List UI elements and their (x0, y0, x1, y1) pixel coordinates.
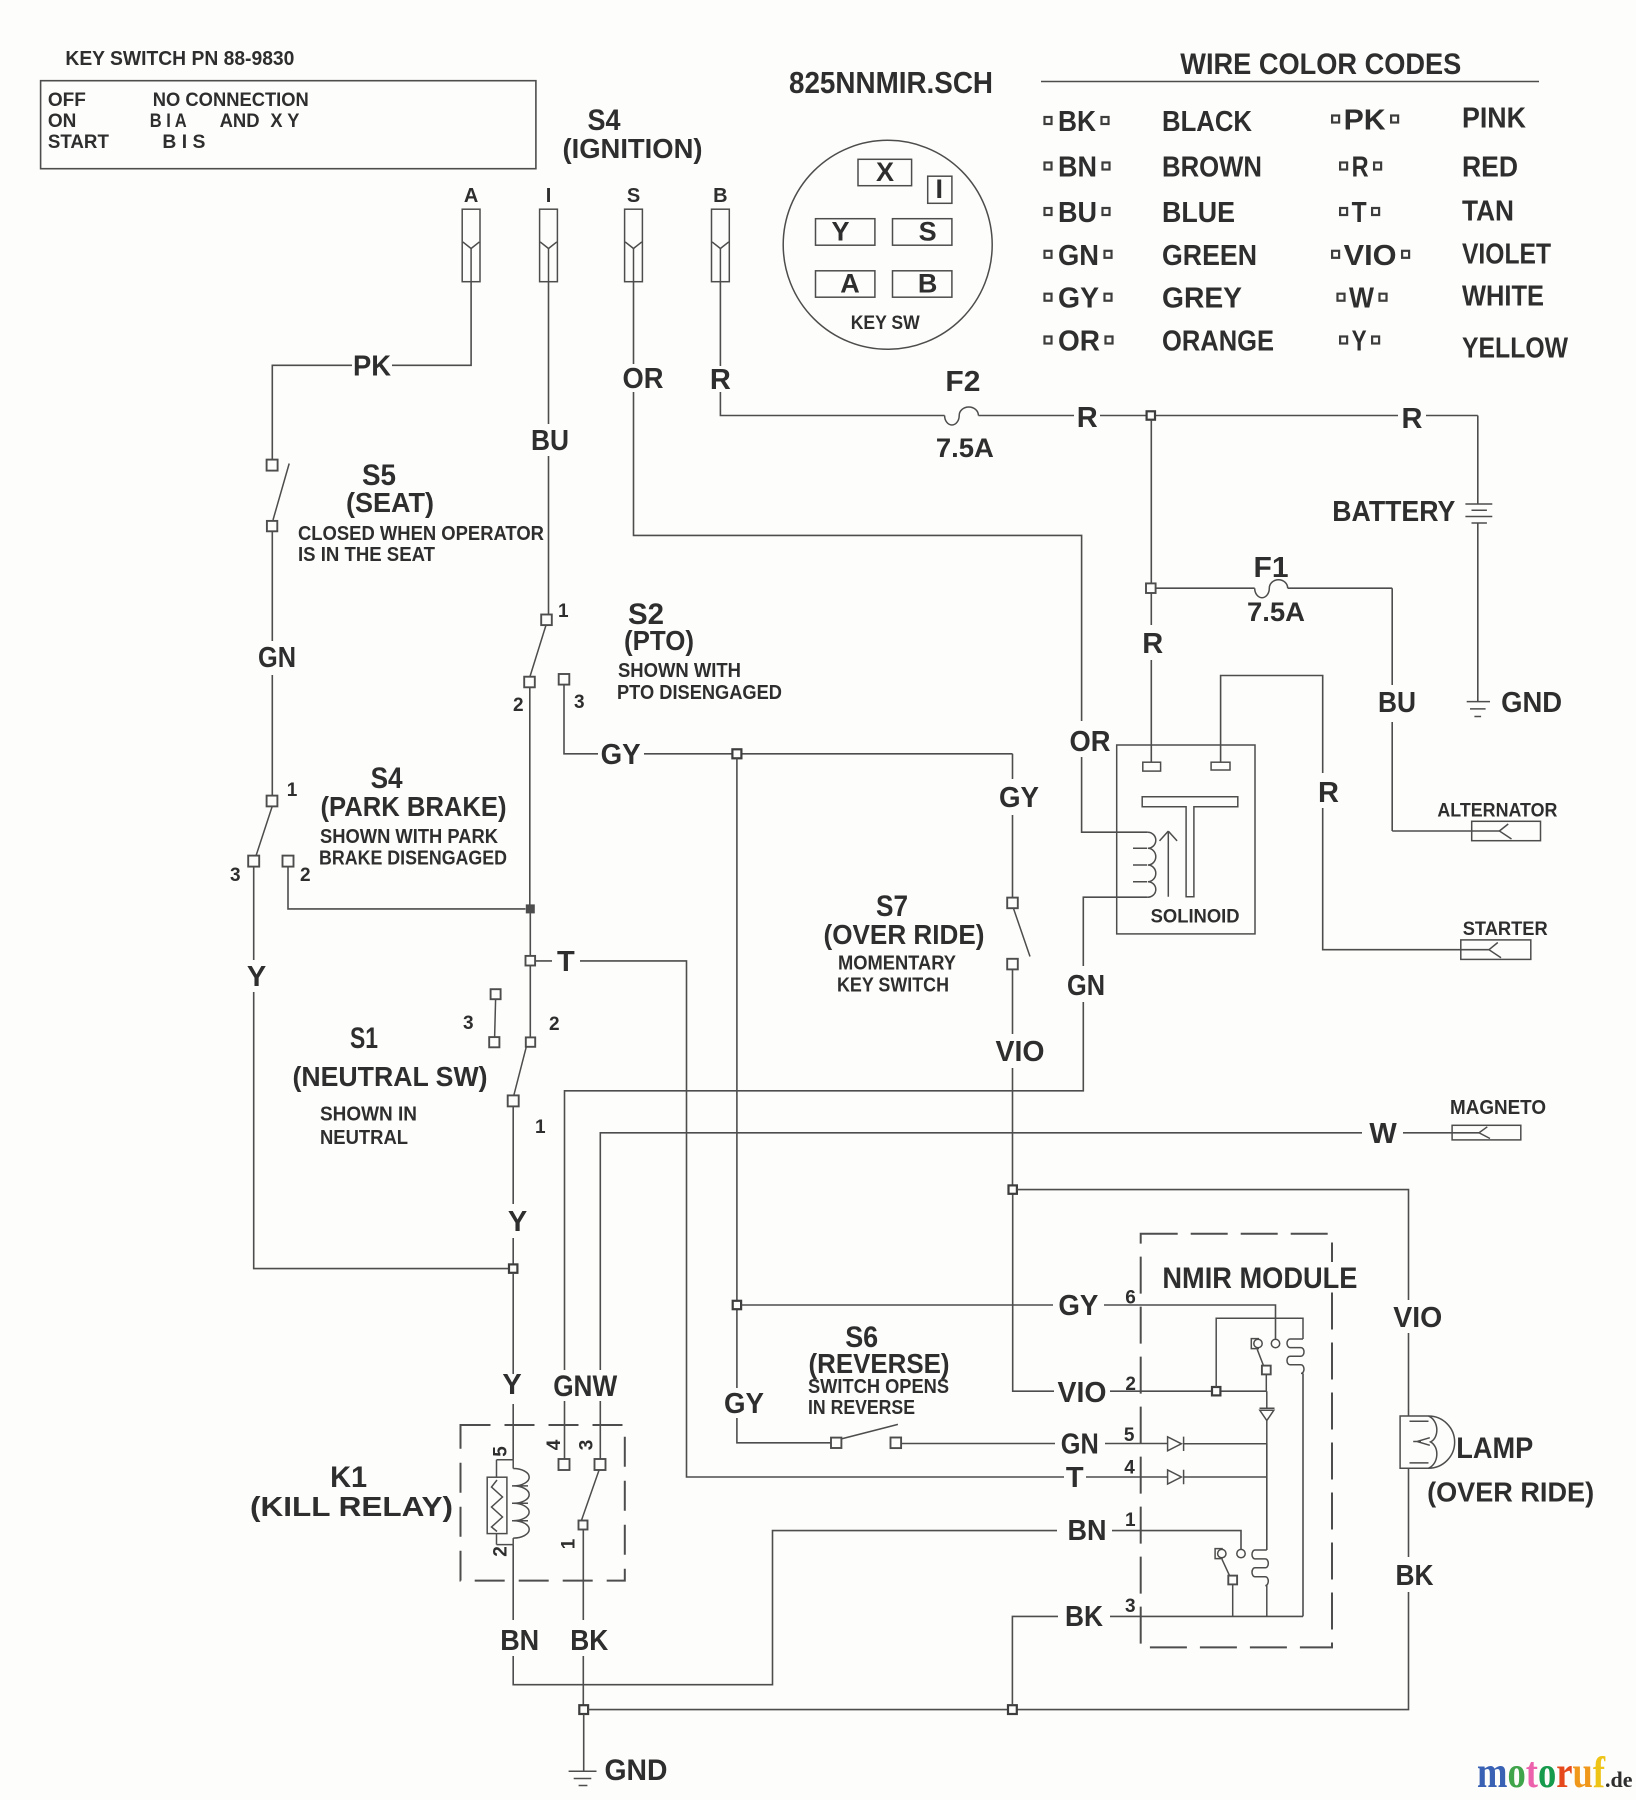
svg-text:MOMENTARY: MOMENTARY (838, 953, 957, 975)
svg-text:PK: PK (1344, 105, 1386, 137)
svg-text:BK: BK (1396, 1560, 1434, 1592)
svg-text:1: 1 (558, 601, 569, 622)
svg-text:SOLINOID: SOLINOID (1151, 907, 1240, 928)
svg-text:3: 3 (230, 865, 241, 886)
junction node BK at NMIR leg (1008, 1705, 1017, 1714)
NMIR relay 2 coil (1252, 1550, 1268, 1586)
fuse F2 7.5A (945, 407, 979, 425)
wire GN into NMIR pin 5 with diode D2 (901, 1443, 1168, 1445)
svg-text:BN: BN (500, 1625, 539, 1657)
svg-text:R: R (1142, 628, 1163, 660)
NMIR relay 1 coil bridge (1216, 1318, 1303, 1387)
terminal node of T branch (526, 956, 536, 966)
wire GY from junction down to reverse switch S6 (737, 758, 831, 1443)
fuse F1 7.5A and wire to alternator (1156, 588, 1393, 831)
svg-text:S: S (919, 217, 937, 247)
legend row BU/BLUE and T/TAN (1045, 208, 1052, 215)
solenoid right terminal pad (1211, 762, 1230, 770)
switch S6 (REVERSE) (831, 1438, 841, 1448)
svg-text:W: W (1369, 1118, 1397, 1150)
svg-text:ALTERNATOR: ALTERNATOR (1437, 801, 1557, 822)
svg-text:3: 3 (1125, 1596, 1136, 1617)
wire R from junction down to solenoid left terminal (1150, 420, 1152, 763)
svg-text:(PTO): (PTO) (624, 625, 694, 656)
svg-text:VIO: VIO (1393, 1302, 1442, 1334)
svg-text:Y: Y (508, 1206, 527, 1238)
svg-text:.de: .de (1605, 1767, 1633, 1792)
svg-text:I: I (936, 174, 944, 204)
legend row BN/BROWN and R/RED (1045, 163, 1052, 170)
svg-text:Y: Y (247, 961, 266, 993)
svg-text:GN: GN (1061, 1429, 1099, 1461)
svg-text:(OVER RIDE): (OVER RIDE) (1427, 1477, 1594, 1508)
svg-text:PINK: PINK (1462, 103, 1526, 135)
svg-text:STARTER: STARTER (1463, 919, 1548, 940)
svg-text:3: 3 (577, 1440, 598, 1451)
svg-text:SHOWN WITH PARK: SHOWN WITH PARK (320, 826, 499, 848)
svg-text:825NNMIR.SCH: 825NNMIR.SCH (789, 65, 993, 100)
svg-text:KEY SWITCH: KEY SWITCH (837, 975, 949, 997)
svg-text:X Y: X Y (270, 111, 299, 132)
terminal node at F1 tap (1146, 583, 1156, 593)
svg-text:(PARK BRAKE): (PARK BRAKE) (321, 791, 507, 822)
wire T from S2 pin 2 through junctions to S1 pin 2 (529, 687, 532, 1036)
svg-text:GREY: GREY (1162, 283, 1242, 315)
wire PK from key pin A to seat switch S5 (272, 282, 471, 460)
svg-text:BN: BN (1058, 152, 1097, 184)
svg-text:CLOSED WHEN OPERATOR: CLOSED WHEN OPERATOR (298, 523, 545, 545)
junction node VIO inside NMIR (1212, 1387, 1220, 1395)
svg-text:Y: Y (1352, 326, 1367, 358)
svg-text:VIOLET: VIOLET (1462, 239, 1551, 271)
svg-text:A: A (464, 185, 478, 207)
svg-text:BK: BK (570, 1625, 608, 1657)
relay K1 (KILL RELAY) dashed box (461, 1425, 625, 1581)
ground GND main (583, 1714, 585, 1771)
svg-text:X: X (876, 157, 894, 187)
svg-text:WIRE COLOR CODES: WIRE COLOR CODES (1180, 48, 1461, 81)
svg-text:GN: GN (1067, 970, 1105, 1002)
svg-text:BU: BU (1378, 687, 1416, 719)
svg-text:OR: OR (1058, 326, 1100, 358)
svg-text:R: R (1402, 403, 1423, 435)
svg-text:(SEAT): (SEAT) (346, 487, 434, 518)
svg-text:(IGNITION): (IGNITION) (563, 133, 703, 164)
svg-text:START: START (48, 132, 109, 153)
svg-text:K1: K1 (330, 1461, 367, 1494)
junction node BK/GND (579, 1705, 588, 1714)
svg-text:NEUTRAL: NEUTRAL (320, 1127, 408, 1149)
wire GN from solenoid coil to kill relay pin 4 (565, 897, 1148, 1459)
svg-text:T: T (557, 946, 575, 978)
svg-text:OR: OR (1070, 726, 1111, 758)
switch S2 (PTO) (541, 615, 552, 626)
svg-text:NMIR MODULE: NMIR MODULE (1162, 1262, 1357, 1295)
svg-text:KEY SWITCH PN 88-9830: KEY SWITCH PN 88-9830 (65, 48, 294, 70)
svg-text:S1: S1 (350, 1022, 378, 1055)
svg-text:SHOWN IN: SHOWN IN (320, 1104, 417, 1126)
wire OR from key pin S to solenoid coil (634, 282, 1148, 833)
svg-text:R: R (1318, 777, 1339, 809)
svg-text:BN: BN (1068, 1515, 1107, 1547)
svg-text:(REVERSE): (REVERSE) (809, 1348, 950, 1379)
svg-text:GY: GY (724, 1388, 764, 1420)
wire T branch to NMIR module pin 4 (535, 961, 1168, 1477)
svg-text:TAN: TAN (1462, 196, 1514, 228)
svg-text:GN: GN (258, 642, 296, 674)
solenoid coil (1133, 832, 1156, 897)
svg-text:R: R (710, 364, 731, 396)
svg-text:VIO: VIO (996, 1036, 1045, 1068)
svg-text:S: S (627, 185, 640, 207)
svg-text:PTO DISENGAGED: PTO DISENGAGED (617, 682, 782, 704)
wire main vertical inside NMIR to relay 2 coil (1266, 1444, 1268, 1551)
svg-text:2: 2 (1125, 1374, 1136, 1395)
svg-text:IS IN THE SEAT: IS IN THE SEAT (298, 544, 435, 566)
K1 coil (resistor box + arcs) (497, 1460, 514, 1545)
svg-text:PK: PK (353, 351, 391, 383)
svg-text:KEY SW: KEY SW (851, 313, 920, 334)
svg-text:A: A (840, 269, 860, 299)
svg-text:LAMP: LAMP (1456, 1432, 1533, 1465)
svg-text:BLACK: BLACK (1162, 106, 1252, 138)
wire BK from bus up into NMIR pin 3 (1012, 1616, 1303, 1705)
solenoid box (1117, 745, 1255, 934)
svg-text:GND: GND (1501, 687, 1562, 719)
junction node R at fuse F1 tap (1147, 411, 1155, 419)
junction node on T line (park brake) (526, 905, 534, 913)
K1 contact blade and pin 1 (582, 1470, 600, 1520)
junction node GY to NMIR pin 6 (733, 1301, 741, 1309)
svg-text:F1: F1 (1254, 552, 1289, 584)
svg-text:3: 3 (463, 1013, 474, 1034)
svg-text:AND: AND (220, 111, 260, 132)
svg-text:SWITCH OPENS: SWITCH OPENS (808, 1376, 949, 1398)
solenoid arrow (1160, 831, 1178, 897)
wire GN from S5 to park brake switch S4 (271, 531, 273, 795)
svg-text:WHITE: WHITE (1462, 281, 1544, 313)
svg-text:T: T (1352, 197, 1367, 229)
svg-text:BU: BU (531, 425, 569, 457)
svg-text:IN REVERSE: IN REVERSE (808, 1397, 915, 1419)
svg-text:1: 1 (1125, 1510, 1136, 1531)
battery (1477, 416, 1479, 702)
solenoid plunger T bar (1142, 797, 1238, 897)
ground GND at battery (1467, 702, 1490, 717)
legend row GN/GREEN and VIO/VIOLET (1045, 251, 1052, 258)
wire BU from key pin I to PTO switch S2 (548, 282, 550, 615)
wire from S4 pin 2 to T node (288, 867, 526, 909)
svg-text:YELLOW: YELLOW (1462, 333, 1569, 365)
svg-text:T: T (1066, 1462, 1084, 1494)
svg-text:F2: F2 (945, 366, 980, 398)
legend row OR/ORANGE and Y/YELLOW (1045, 337, 1052, 344)
svg-text:(NEUTRAL SW): (NEUTRAL SW) (293, 1061, 488, 1092)
svg-text:RED: RED (1462, 152, 1518, 184)
svg-text:ORANGE: ORANGE (1162, 326, 1274, 358)
wire VIO branch to over-ride lamp (1017, 1190, 1409, 1416)
wire Y from S1 pin 1 to kill relay K1 coil (512, 1106, 514, 1459)
svg-text:7.5A: 7.5A (1247, 597, 1305, 627)
svg-text:GN: GN (1058, 240, 1099, 272)
svg-text:4: 4 (544, 1439, 565, 1450)
svg-text:Y: Y (831, 217, 849, 247)
svg-text:BROWN: BROWN (1162, 152, 1262, 184)
NMIR relay 1 blade and terminal (1257, 1349, 1263, 1365)
lamp (OVER RIDE) (1400, 1416, 1455, 1468)
svg-text:BATTERY: BATTERY (1332, 496, 1455, 528)
svg-text:GY: GY (1058, 1290, 1098, 1322)
svg-text:GY: GY (999, 782, 1039, 814)
switch S1 (NEUTRAL SW) (491, 989, 501, 999)
svg-text:SHOWN WITH: SHOWN WITH (618, 660, 741, 682)
svg-text:OFF: OFF (48, 90, 86, 111)
wire R with fuse F2 from key pin B to battery (720, 282, 1477, 416)
svg-text:2: 2 (300, 865, 311, 886)
NMIR relay 1 coil (1287, 1339, 1304, 1373)
svg-text:VIO: VIO (1058, 1377, 1107, 1409)
svg-text:Y: Y (502, 1369, 521, 1401)
junction node Y at neutral switch leg (509, 1264, 517, 1272)
svg-text:GND: GND (605, 1754, 668, 1787)
junction node GY branch (732, 749, 741, 758)
svg-text:W: W (1349, 283, 1375, 315)
wire BK from K1 pin 1 to ground (582, 1530, 584, 1706)
svg-text:B: B (918, 269, 938, 299)
svg-text:B I S: B I S (162, 132, 205, 153)
module NMIR dashed box (1141, 1234, 1332, 1648)
svg-text:3: 3 (574, 692, 585, 713)
key switch connector face (KEY SW) (783, 140, 992, 349)
legend row GY/GREY and W/WHITE (1045, 294, 1052, 301)
svg-text:2: 2 (549, 1014, 560, 1035)
svg-text:5: 5 (1124, 1425, 1135, 1446)
svg-text:MAGNETO: MAGNETO (1450, 1097, 1546, 1119)
junction node VIO to lamp (1009, 1185, 1017, 1193)
wire VIO from S7 to NMIR pin 2 (1013, 969, 1267, 1391)
svg-text:(KILL RELAY): (KILL RELAY) (250, 1491, 453, 1522)
svg-text:B I A: B I A (150, 111, 187, 132)
NMIR relay 2 blade and terminal (1222, 1559, 1230, 1575)
svg-text:I: I (546, 185, 552, 207)
svg-text:(OVER RIDE): (OVER RIDE) (824, 919, 985, 950)
svg-text:1: 1 (535, 1117, 546, 1138)
wire Y from S4 pin 3 down and right to neutral-switch node (254, 867, 508, 1269)
svg-text:GNW: GNW (553, 1370, 618, 1403)
svg-text:NO CONNECTION: NO CONNECTION (153, 90, 309, 111)
svg-text:2: 2 (513, 695, 524, 716)
svg-text:R: R (1077, 402, 1098, 434)
switch S7 (OVER RIDE) momentary (1007, 898, 1018, 909)
svg-text:BK: BK (1058, 106, 1096, 138)
svg-text:BK: BK (1065, 1601, 1103, 1633)
svg-text:R: R (1352, 152, 1369, 184)
wire GY into NMIR pin 6 (741, 1305, 1275, 1339)
wire BK bottom bus to lamp and NMIR pin 3 (588, 1468, 1408, 1709)
NMIR relay 2 contact circles (1218, 1549, 1226, 1557)
switch S4 (PARK BRAKE) (267, 796, 278, 807)
svg-text:motoruf: motoruf (1477, 1748, 1606, 1797)
note: key switch truth table box (41, 81, 536, 169)
svg-text:BU: BU (1058, 197, 1097, 229)
wire R from solenoid right terminal to starter (1221, 676, 1489, 950)
svg-text:2: 2 (491, 1546, 512, 1557)
svg-text:VIO: VIO (1344, 240, 1397, 272)
wire BN from K1 coil pin 2 to NMIR pin 1 (513, 1531, 1241, 1685)
legend row BK/BLACK and PK/PINK (1045, 117, 1052, 124)
svg-text:7.5A: 7.5A (936, 433, 994, 463)
svg-text:OR: OR (623, 363, 664, 395)
svg-text:GY: GY (1058, 283, 1099, 315)
svg-text:B: B (713, 185, 727, 207)
diode D1 (VIO branch, pointing down) (1260, 1391, 1275, 1408)
svg-text:1: 1 (287, 780, 298, 801)
svg-text:BLUE: BLUE (1162, 197, 1235, 229)
svg-text:BRAKE DISENGAGED: BRAKE DISENGAGED (319, 848, 507, 870)
svg-text:5: 5 (491, 1446, 512, 1457)
svg-text:GREEN: GREEN (1162, 240, 1257, 272)
wire inside NMIR relay1 coil to BK (1302, 1373, 1304, 1616)
svg-text:ON: ON (48, 111, 77, 132)
svg-text:4: 4 (1124, 1458, 1135, 1479)
svg-text:GY: GY (601, 739, 641, 771)
switch S5 (SEAT) (267, 460, 278, 471)
svg-text:1: 1 (559, 1538, 580, 1549)
solenoid left terminal pad (1143, 762, 1161, 771)
wire GY from S2 pin 3 to override switch S7 (564, 685, 1013, 898)
svg-text:6: 6 (1125, 1288, 1136, 1309)
wire W from kill relay pin 3 to magneto (600, 1133, 1479, 1459)
NMIR relay 1 contact circles (1254, 1339, 1262, 1347)
